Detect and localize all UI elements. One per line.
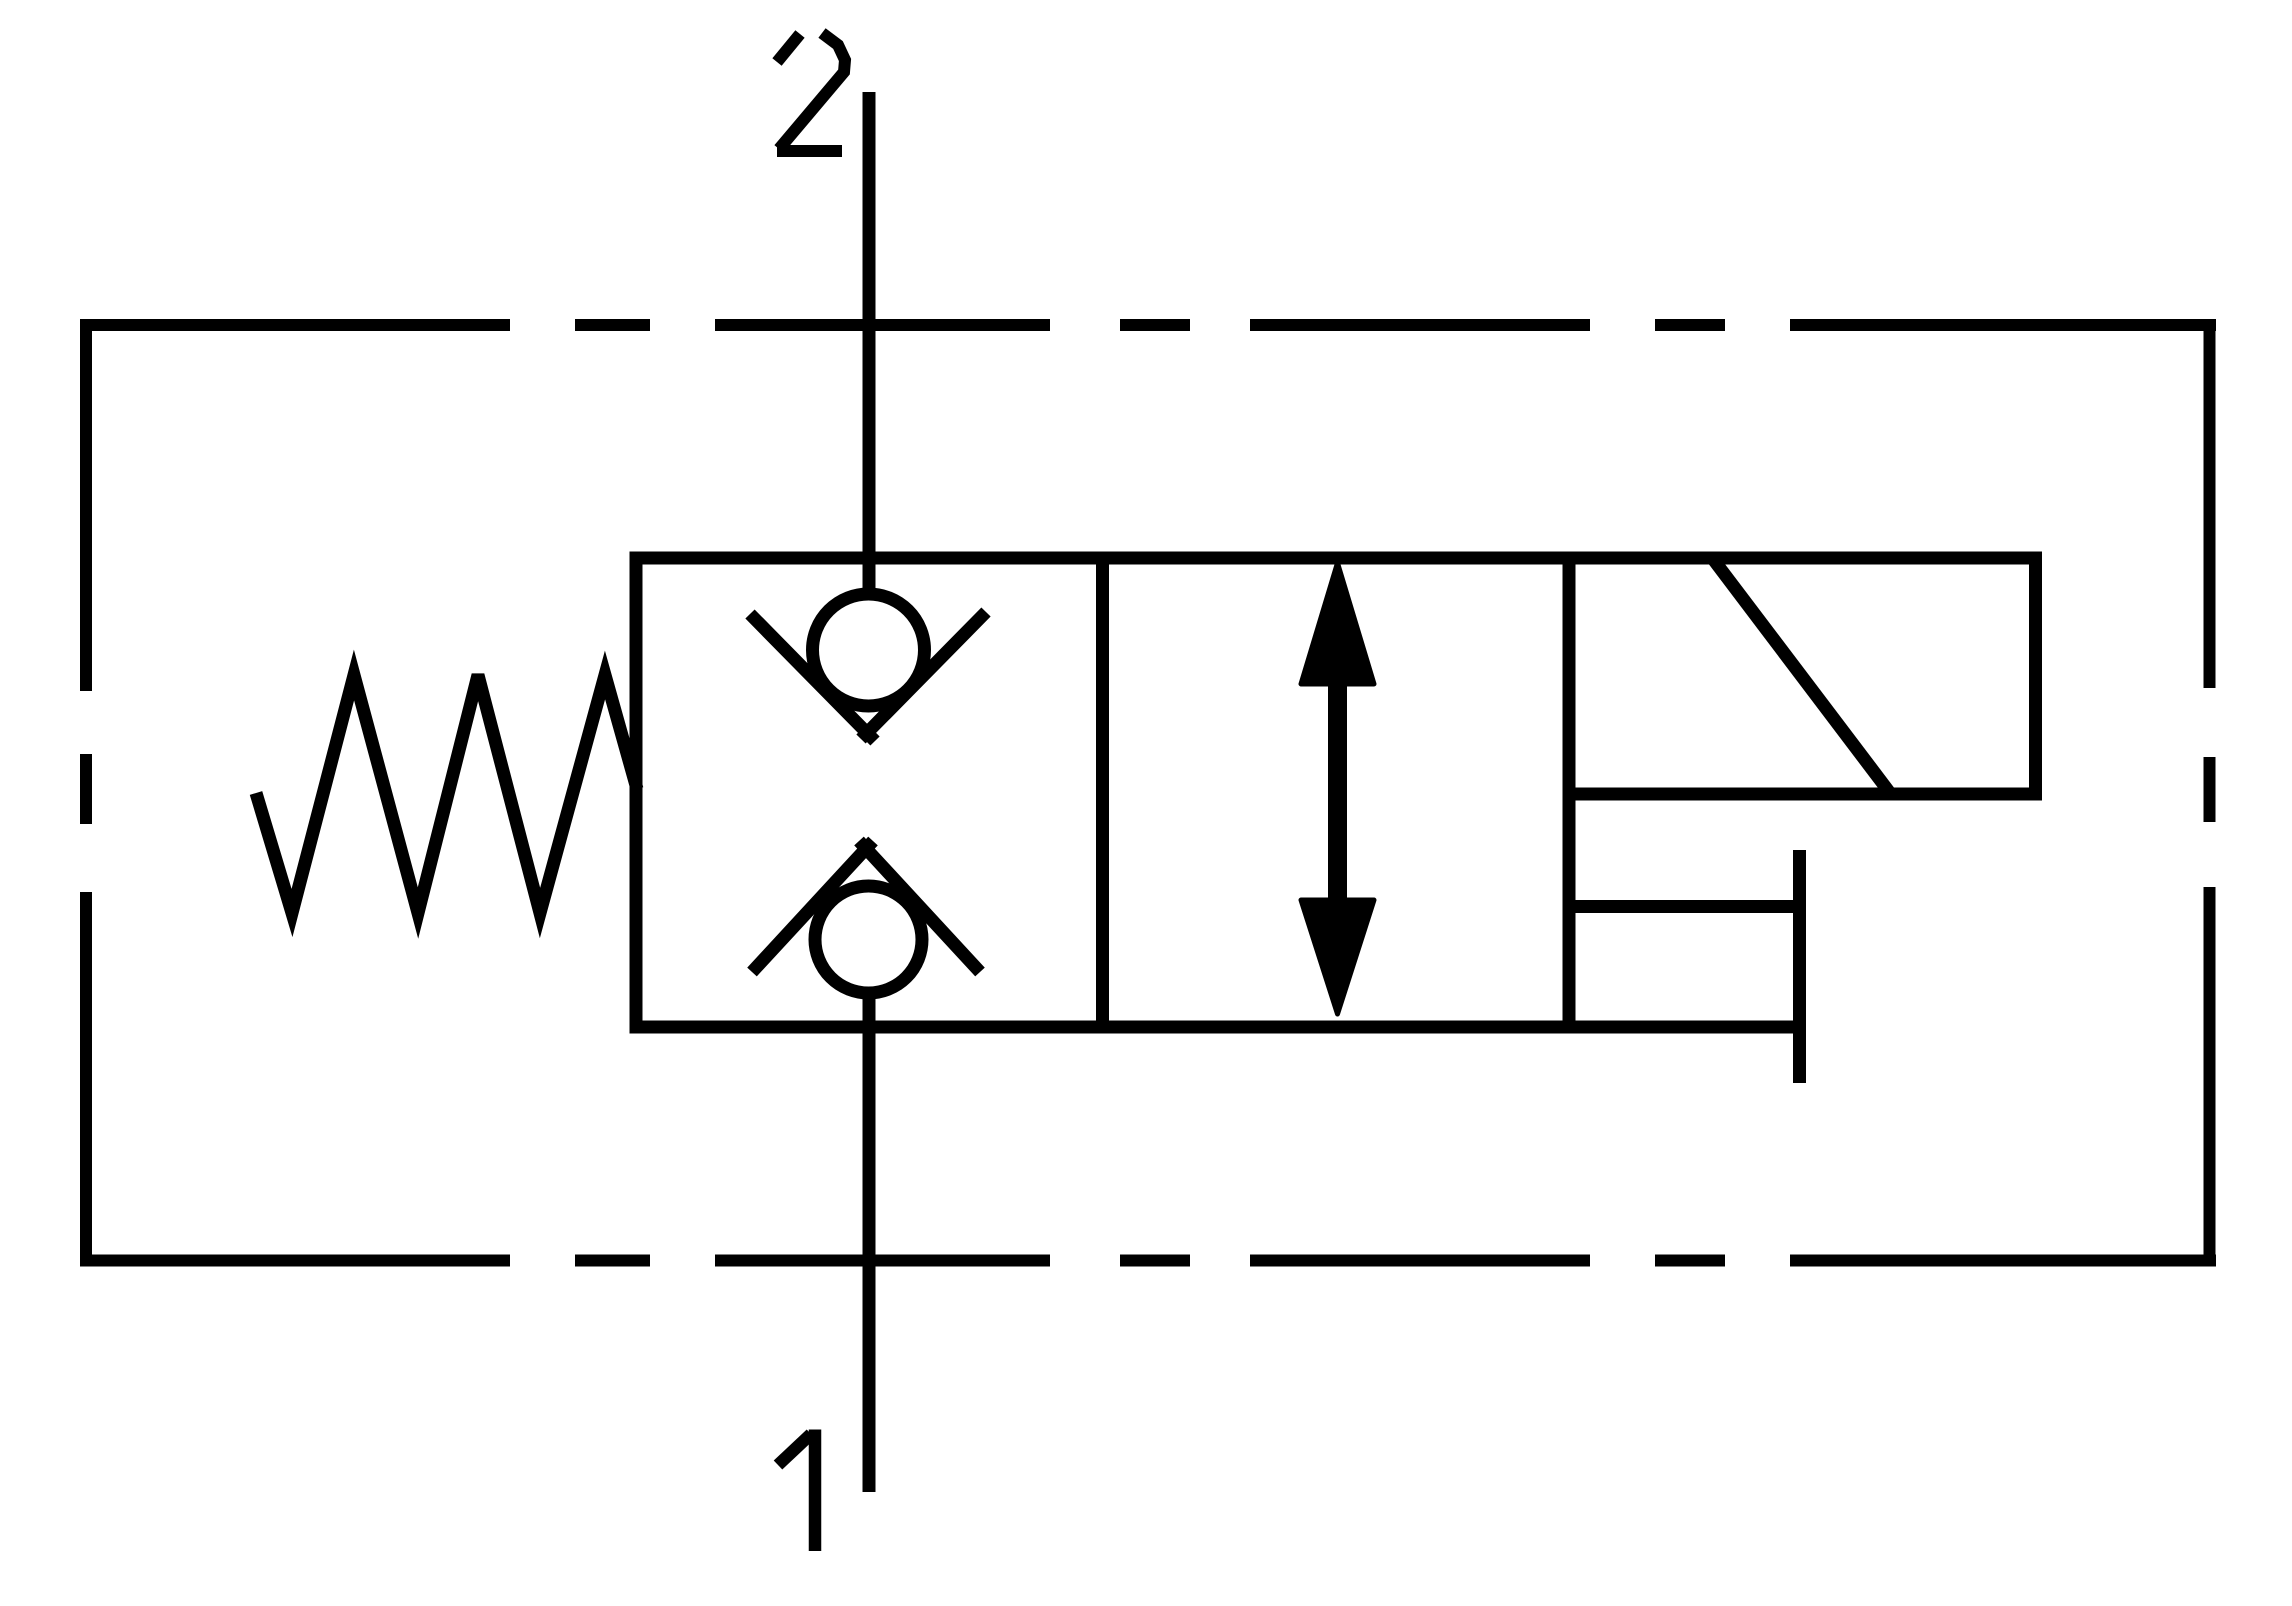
arrowhead down bbox=[1301, 900, 1374, 1014]
arrowhead up bbox=[1301, 563, 1374, 684]
double-headed arrow shaft (valve stroke indicator) bbox=[1328, 680, 1347, 905]
valve body right edge (arrow box right side) bbox=[1563, 552, 1576, 1034]
spring (return spring, zigzag) bbox=[256, 675, 637, 913]
enclosure boundary right edge (dash-dot) bbox=[2204, 319, 2216, 1267]
port 1 wire (vertical line from bottom poppet down to label 1) bbox=[863, 993, 876, 1492]
port 2 wire (vertical line from label 2 down into valve) bbox=[863, 92, 876, 593]
valve body bottom edge (extends right to manual-override pin) bbox=[630, 1021, 1807, 1034]
check valve CV1 seat (V) bbox=[750, 612, 986, 741]
check valve CV2 circle (bottom poppet) bbox=[815, 886, 922, 993]
port 2 label bbox=[777, 33, 845, 151]
check valve CV2 seat (inverted V) bbox=[752, 841, 980, 972]
solenoid box bottom edge bbox=[1563, 788, 2043, 801]
enclosure boundary left edge (dash-dot) bbox=[80, 319, 92, 1267]
valve body left edge bbox=[630, 552, 643, 1034]
manual override upper line bbox=[1563, 900, 1801, 913]
valve body middle edge (between check-valve box and arrow box) bbox=[1096, 552, 1109, 1034]
enclosure boundary bottom edge (dash-dot) bbox=[80, 1255, 2216, 1267]
solenoid box right edge bbox=[2029, 552, 2042, 801]
manual override pin bar bbox=[1793, 850, 1806, 1083]
valve body top edge (spans check-valve box, arrow box and solenoid box) bbox=[630, 552, 2043, 565]
solenoid coil diagonal bbox=[1713, 559, 1890, 793]
enclosure boundary top edge (dash-dot) bbox=[80, 319, 2216, 331]
port 1 label bbox=[778, 1430, 815, 1552]
check valve CV1 circle (top poppet) bbox=[813, 594, 925, 706]
